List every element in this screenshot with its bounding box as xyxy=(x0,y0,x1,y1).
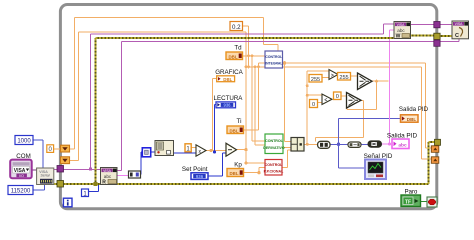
wire paro to conditional xyxy=(420,201,427,203)
svg-text:CONTROL: CONTROL xyxy=(265,139,284,143)
wire pink visa read string out xyxy=(118,174,129,176)
svg-text:LECTURA: LECTURA xyxy=(214,95,244,102)
svg-text:Salida PID: Salida PID xyxy=(399,106,429,113)
wire 1 const to divide xyxy=(191,146,196,148)
constant 1000 xyxy=(15,136,33,145)
tunnel visa right lower xyxy=(434,40,440,46)
svg-text:I/O: I/O xyxy=(19,174,24,178)
constant 0.2 xyxy=(230,22,243,31)
constant 255 xyxy=(309,75,322,83)
conditional terminal xyxy=(427,197,437,207)
constant 0 b1 xyxy=(310,100,318,109)
wire Ti to integral xyxy=(243,63,265,130)
wire derivative output xyxy=(283,147,291,149)
string to byte array icon xyxy=(129,171,141,178)
VISA read icon xyxy=(101,168,118,186)
svg-text:0: 0 xyxy=(336,94,339,100)
wire Kp to proportional xyxy=(243,168,265,173)
svg-text:DBL: DBL xyxy=(229,171,238,176)
wire 0b to select2 xyxy=(341,95,347,97)
svg-text:VISA: VISA xyxy=(14,168,26,174)
constant 115200 xyxy=(8,186,33,195)
svg-text:GRAFICA: GRAFICA xyxy=(215,69,243,76)
wire 0 to less xyxy=(318,102,323,104)
wire magenta visa resource from read xyxy=(118,39,459,171)
wire error cluster dashed xyxy=(54,36,452,185)
wire visa control to config xyxy=(32,169,37,171)
wire magenta visa resource main xyxy=(54,24,452,170)
constant 1 blue xyxy=(82,189,89,197)
wire blue byte count 1 xyxy=(89,185,99,192)
svg-text:DBL: DBL xyxy=(407,117,417,122)
wire orange B from ring constant 2 xyxy=(70,32,247,160)
svg-text:C: C xyxy=(455,33,459,39)
indicator GRAFICA xyxy=(217,76,235,82)
wire integral lower output to indexing tunnel xyxy=(246,67,433,159)
indicator Salida PID string xyxy=(392,139,409,149)
wire blue 1000 to visa config xyxy=(33,140,43,168)
svg-text:VISA: VISA xyxy=(397,23,405,27)
VISA resource control xyxy=(10,160,32,179)
VISA write icon xyxy=(394,22,411,40)
wire blue 115200 to visa config xyxy=(33,185,45,191)
svg-text:Td: Td xyxy=(234,44,242,51)
svg-text:>: > xyxy=(331,73,334,79)
constant 1 orange xyxy=(185,144,191,153)
constant 0 b2 xyxy=(334,92,342,100)
index array small blue icon xyxy=(142,148,150,157)
ring constant 2 xyxy=(61,157,70,164)
svg-text:abc: abc xyxy=(104,174,112,179)
junction dots xyxy=(89,167,92,170)
tunnel error right lower xyxy=(435,139,441,145)
divide triangle xyxy=(196,145,206,156)
tunnel indexing 1 xyxy=(431,146,439,153)
svg-text:115200: 115200 xyxy=(11,189,31,195)
less than triangle xyxy=(322,94,332,105)
wire integral output right and down xyxy=(282,63,433,148)
svg-text:Ti: Ti xyxy=(237,118,242,125)
subVI control derivativo xyxy=(263,134,285,154)
svg-text:VISA: VISA xyxy=(103,169,111,173)
wire select1 output and feedback xyxy=(347,81,389,109)
boolean Paro xyxy=(401,195,421,207)
subVI control integral xyxy=(265,51,283,68)
control Td xyxy=(226,52,243,60)
wire 255 to greater xyxy=(322,77,329,79)
svg-text:DBL: DBL xyxy=(223,77,232,82)
indicator LECTURA xyxy=(216,102,236,108)
svg-text:<: < xyxy=(324,98,327,104)
tunnel visa left xyxy=(57,166,64,173)
svg-text:DERIVATIVO: DERIVATIVO xyxy=(263,146,285,150)
tunnel indexing 2 xyxy=(431,157,439,164)
svg-text:936: 936 xyxy=(224,103,232,108)
svg-text:255: 255 xyxy=(339,75,348,81)
wire proportional output xyxy=(282,150,291,168)
wire error-signal bundle vertical xyxy=(237,32,266,163)
wire dbl bypass over icons xyxy=(316,100,364,141)
svg-text:Serial: Serial xyxy=(40,174,49,178)
constant 0 outside xyxy=(47,145,54,153)
control Kp xyxy=(227,169,244,177)
indicator Salida PID dbl xyxy=(401,115,419,122)
svg-text:abc: abc xyxy=(398,143,407,149)
concatenate strings icon xyxy=(348,142,361,147)
wire Td to derivative xyxy=(243,56,266,145)
svg-text:W: W xyxy=(396,33,401,39)
VISA close icon xyxy=(452,21,469,39)
wire divide to subtract xyxy=(206,79,226,151)
number to string icon xyxy=(318,141,330,148)
VISA configure serial port icon xyxy=(37,168,54,185)
svg-text:R: R xyxy=(102,179,106,185)
wire 255b to select1 xyxy=(351,75,358,77)
svg-text:VISA: VISA xyxy=(455,22,463,26)
wire orange A from ring constant up over top xyxy=(70,18,278,149)
svg-text:DBL: DBL xyxy=(228,54,237,59)
ring constant 1 xyxy=(61,145,70,152)
iteration terminal i xyxy=(63,198,72,207)
tunnel error left xyxy=(57,181,64,188)
svg-text:DBL: DBL xyxy=(229,128,238,133)
select node 1 xyxy=(358,73,373,90)
svg-text:Kp: Kp xyxy=(234,161,242,168)
svg-text:CONTROL: CONTROL xyxy=(265,163,284,167)
svg-text:TF: TF xyxy=(405,199,411,205)
trim string icon xyxy=(368,141,382,147)
svg-text:CONTROL: CONTROL xyxy=(265,55,282,59)
wire blue set point to subtract xyxy=(208,153,226,176)
svg-text:P.P.CIONAL: P.P.CIONAL xyxy=(264,170,284,174)
subtract triangle xyxy=(226,143,237,156)
subVI control proporcional xyxy=(264,160,284,176)
wire 0.2 constant down xyxy=(242,26,249,67)
tunnel error right xyxy=(434,33,440,39)
control Set Point xyxy=(191,173,208,180)
svg-text:0: 0 xyxy=(312,102,315,108)
tunnel visa right top xyxy=(434,22,440,28)
wire compound to string convert xyxy=(304,71,329,144)
wire blue string-number chain xyxy=(141,105,217,175)
compound arithmetic add xyxy=(291,138,304,152)
svg-text:255: 255 xyxy=(311,77,320,83)
wire 0 const into loop xyxy=(54,148,61,150)
svg-text:1000: 1000 xyxy=(17,139,31,145)
svg-text:936: 936 xyxy=(196,174,204,179)
svg-text:0.2: 0.2 xyxy=(232,24,241,31)
svg-text:INTEGRAL: INTEGRAL xyxy=(265,62,282,66)
while loop xyxy=(60,5,436,209)
control Ti xyxy=(227,126,244,134)
constant 255 b xyxy=(338,73,351,81)
wire blue to salida pid and chart xyxy=(330,119,401,169)
fract string to number icon xyxy=(155,141,174,156)
wire pink string to write buffer xyxy=(382,30,395,144)
svg-text:abc: abc xyxy=(397,28,405,33)
greater than triangle xyxy=(329,70,338,80)
indicator waveform chart xyxy=(365,160,386,180)
select node 2 xyxy=(347,93,362,109)
